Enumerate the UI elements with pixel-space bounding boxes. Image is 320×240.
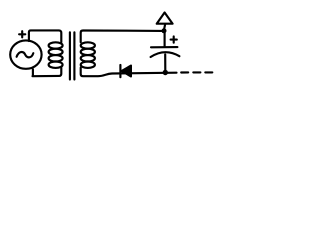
capacitor C1 lower lead [164, 54, 166, 70]
diode D1 triangle [122, 66, 132, 77]
transformer secondary L2 rings [81, 42, 95, 48]
diode D1 cathode bar [119, 65, 121, 77]
node B junction dot [163, 70, 168, 75]
transformer primary L1 rings [49, 42, 63, 48]
wire: primary bottom to source bottom rail [33, 68, 62, 77]
capacitor C1 upper lead [164, 33, 166, 46]
wire: secondary top to right rail [81, 31, 162, 43]
capacitor C1 straight top plate [151, 46, 177, 48]
plus label at source [19, 31, 25, 37]
capacitor C1 curved bottom plate [151, 52, 180, 57]
ac source sine wave [17, 52, 34, 57]
dashed wire continuation [181, 71, 212, 73]
arrow head (open triangle) [157, 13, 173, 24]
transformer core lines [70, 32, 75, 79]
wire: source top stub and top rail to primary [29, 30, 61, 42]
arrow stub above node A [164, 24, 165, 29]
wire: secondary bottom rail to diode and node B [81, 68, 177, 77]
ac source V1 circle [10, 40, 41, 68]
plus label at capacitor [171, 37, 177, 43]
wire: source bottom stub [32, 69, 34, 76]
node A junction dot [162, 28, 167, 33]
